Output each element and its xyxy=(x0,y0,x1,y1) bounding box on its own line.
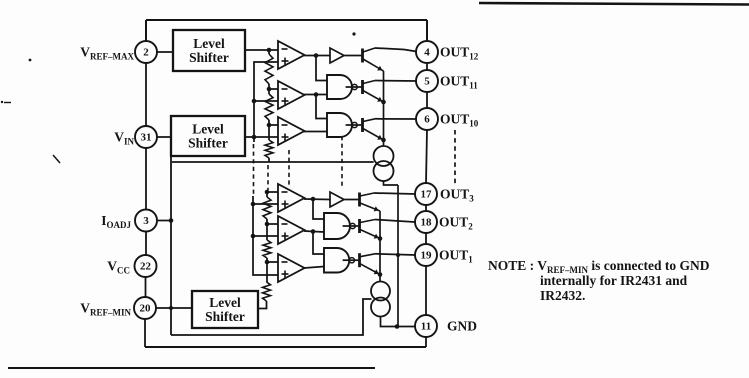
IC box top border xyxy=(146,19,427,21)
current mirror M1 xyxy=(374,146,394,166)
wire ladder seg xyxy=(266,258,268,282)
wire Q2 collector to pin5 xyxy=(375,80,417,83)
wire LS2 out xyxy=(245,136,278,138)
node Q3 emitter xyxy=(381,138,386,143)
wire bias rail bottom xyxy=(171,299,372,335)
label OUT10 xyxy=(440,112,479,129)
wire bias rail top xyxy=(172,161,374,163)
wire Q1 collector to pin4 xyxy=(375,48,417,52)
svg-text:VREF–MAX: VREF–MAX xyxy=(80,45,134,62)
svg-text:VIN: VIN xyxy=(114,130,134,147)
pin 17 xyxy=(415,183,437,205)
node pin20 cross xyxy=(169,306,173,310)
nand gate G2 xyxy=(327,113,357,137)
level shifter LS1 xyxy=(173,30,245,71)
buffer B xyxy=(330,192,344,207)
transistor Q6 xyxy=(360,253,381,274)
node B2 out xyxy=(311,229,316,234)
svg-text:OUT12: OUT12 xyxy=(440,45,479,62)
wire G1 to Q2 xyxy=(346,86,362,88)
pin 31 xyxy=(135,126,157,148)
svg-text:Level: Level xyxy=(193,36,225,51)
svg-text:19: 19 xyxy=(421,250,433,262)
svg-text:Level: Level xyxy=(209,295,241,310)
transistor Q4 xyxy=(360,193,381,212)
label VCC xyxy=(107,259,130,276)
top page rule xyxy=(479,3,749,5)
wire mirror M bottom xyxy=(384,181,399,185)
wire tap2 to comp2 xyxy=(269,88,278,90)
wire pin2 to LS1 xyxy=(157,51,174,53)
wire emitter bus upper xyxy=(383,71,385,146)
wire comp4 plus xyxy=(253,203,278,205)
wire buffer A to Q1 xyxy=(344,55,361,57)
svg-text:31: 31 xyxy=(141,132,152,144)
level shifter LS2 xyxy=(171,116,245,156)
level shifter LS3 xyxy=(192,291,258,328)
resistor R5 xyxy=(263,240,271,258)
svg-text:GND: GND xyxy=(447,319,477,334)
wire ladder seg xyxy=(268,84,270,94)
resistor R2 xyxy=(265,94,273,120)
label VIN xyxy=(114,130,134,147)
node tap6 xyxy=(265,260,270,265)
node A1 out xyxy=(314,53,319,58)
svg-text:Shifter: Shifter xyxy=(188,136,228,151)
wire tap3 to comp3 xyxy=(269,124,278,126)
wire pin3 xyxy=(157,220,172,222)
wire A2 drop to NAND2 xyxy=(316,95,327,119)
buffer A xyxy=(330,48,344,63)
comparator A3 xyxy=(278,117,305,145)
wire ladder seg xyxy=(266,219,268,240)
pin 4 xyxy=(416,41,438,63)
svg-text:Shifter: Shifter xyxy=(205,309,245,324)
bottom page rule xyxy=(8,367,375,369)
svg-text:VCC: VCC xyxy=(107,259,130,276)
node IOADJ junction xyxy=(169,218,174,223)
svg-text:OUT11: OUT11 xyxy=(440,74,478,91)
wire VIN bus lower xyxy=(253,196,278,275)
svg-text:18: 18 xyxy=(421,217,433,229)
node bus comp5 xyxy=(251,234,256,239)
wire comp B3 out xyxy=(304,267,324,269)
nand gate G1 xyxy=(327,75,357,99)
pin 18 xyxy=(415,211,437,233)
svg-text:Level: Level xyxy=(192,122,224,137)
label OUT1 xyxy=(439,248,473,265)
label OUT2 xyxy=(439,215,473,232)
current mirror M3 xyxy=(371,282,390,301)
node tap5 xyxy=(265,222,270,227)
svg-text:5: 5 xyxy=(424,76,430,88)
wire comp2 plus xyxy=(254,100,278,102)
svg-text:internally for IR2431 and: internally for IR2431 and xyxy=(540,273,688,288)
wire pin20 to LS3 xyxy=(156,307,193,309)
wire A1 drop to NAND1 xyxy=(316,56,327,81)
node bus comp4 xyxy=(251,202,256,207)
svg-text:OUT1: OUT1 xyxy=(439,248,473,265)
label VREF-MIN xyxy=(80,301,131,318)
wire comp5 plus xyxy=(253,235,278,237)
node tap4 xyxy=(265,190,270,195)
wire VIN bus upper xyxy=(254,62,278,142)
svg-text:11: 11 xyxy=(421,321,431,333)
wire G3 to Q5 xyxy=(343,225,359,227)
node Q5 emitter xyxy=(378,236,383,241)
wire Q5 collector to pin18 xyxy=(375,220,415,223)
label VREF-MAX xyxy=(80,45,134,62)
svg-text:3: 3 xyxy=(143,215,149,227)
svg-text:OUT2: OUT2 xyxy=(439,215,473,232)
current mirror M2 xyxy=(374,161,394,181)
wire VIN bus dashed xyxy=(253,144,255,196)
node tap3 xyxy=(267,123,272,128)
wire Q3 collector to pin6 xyxy=(375,118,417,120)
wire tap4 to comp4 xyxy=(267,191,278,193)
svg-text:17: 17 xyxy=(421,189,433,201)
pin 19 xyxy=(415,244,437,266)
pin 20 xyxy=(134,297,156,319)
node Q6 emitter xyxy=(378,272,383,277)
wire branch to bias rail xyxy=(171,138,243,153)
IC box bottom border xyxy=(145,346,426,348)
transistor Q3 xyxy=(363,118,384,140)
pin 5 xyxy=(416,70,438,92)
node pin19 cross xyxy=(396,253,400,257)
wire Q6 collector to pin19 xyxy=(375,254,416,255)
node bus comp2 xyxy=(252,99,257,104)
node A2 out xyxy=(314,92,319,97)
resistor R3 xyxy=(265,140,273,158)
resistor R4 xyxy=(263,197,271,219)
node ladder top xyxy=(267,48,272,53)
wire ladder seg xyxy=(266,192,268,197)
wire bias rail left xyxy=(170,153,172,335)
label IOADJ xyxy=(101,213,131,230)
node GND junction xyxy=(395,324,400,329)
wire G2 to Q3 xyxy=(346,124,362,126)
nand gate G4 xyxy=(324,248,354,273)
wire ladder seg xyxy=(268,120,270,140)
comparator A2 xyxy=(278,81,305,109)
nand gate G3 xyxy=(324,213,355,239)
transistor Q1 xyxy=(363,48,384,71)
IC box right border xyxy=(426,20,427,347)
wire ladder dashed xyxy=(267,165,269,190)
dashed nand column xyxy=(341,136,343,188)
comparator B1 xyxy=(278,184,305,212)
wire G4 to Q6 xyxy=(343,259,359,261)
wire pin31 to LS2 xyxy=(157,136,172,138)
wire emitter bus lower xyxy=(379,211,381,282)
wire Q4 collector to pin17 xyxy=(374,193,416,194)
wire comp B2 out xyxy=(304,231,324,232)
comparator B2 xyxy=(278,216,305,244)
wire comp A2 out xyxy=(304,94,327,96)
pin 22 xyxy=(135,255,157,277)
svg-text:6: 6 xyxy=(424,114,430,126)
svg-text:OUT10: OUT10 xyxy=(440,112,479,129)
transistor Q2 xyxy=(363,80,384,102)
comparator B3 xyxy=(278,254,305,282)
node bus LS2 xyxy=(252,135,257,140)
label GND xyxy=(447,319,477,334)
wire buffer B to Q4 xyxy=(344,199,358,201)
wire mirror to GND xyxy=(381,317,416,327)
svg-text:Shifter: Shifter xyxy=(189,50,229,65)
pin 11 xyxy=(415,315,437,337)
svg-text:IR2432.: IR2432. xyxy=(540,288,585,303)
wire LS1 out xyxy=(245,49,278,51)
dashed comp column xyxy=(288,150,290,187)
pin 3 xyxy=(135,210,157,232)
note text xyxy=(488,258,710,303)
node Q2 emitter xyxy=(381,100,386,105)
svg-text:VREF–MIN: VREF–MIN xyxy=(80,301,131,318)
wire mirror return xyxy=(397,185,399,327)
pin 6 xyxy=(416,108,438,130)
wire tap5 to comp5 xyxy=(267,223,278,225)
wire B1 drop to NAND3 xyxy=(313,199,324,219)
current mirror M4 xyxy=(371,298,390,317)
IC box left border xyxy=(145,20,146,347)
wire comp B1 out xyxy=(304,198,330,201)
wire ladder seg xyxy=(268,158,270,162)
svg-text:2: 2 xyxy=(143,47,149,59)
svg-text:OUT3: OUT3 xyxy=(440,187,474,204)
label OUT11 xyxy=(440,74,478,91)
node B1 out xyxy=(311,197,316,202)
label OUT3 xyxy=(440,187,474,204)
svg-text:IOADJ: IOADJ xyxy=(101,213,131,230)
pin 2 xyxy=(135,41,157,63)
wire tap6 to comp6 xyxy=(267,261,278,263)
wire B2 drop to NAND4 xyxy=(313,232,324,255)
svg-text:4: 4 xyxy=(424,47,430,59)
transistor Q5 xyxy=(360,219,381,239)
dashed out column xyxy=(454,130,456,186)
resistor R1 xyxy=(265,54,273,84)
svg-text:20: 20 xyxy=(140,303,152,315)
comparator A1 xyxy=(278,41,305,69)
wire ladder seg xyxy=(268,50,270,54)
label OUT12 xyxy=(440,45,479,62)
wire comp A1 out xyxy=(304,55,330,57)
wire comp A3 out xyxy=(304,131,327,133)
wire R6 to LS3 xyxy=(258,301,267,309)
svg-text:22: 22 xyxy=(140,261,152,273)
resistor R6 xyxy=(263,282,271,301)
node tap2 xyxy=(267,87,272,92)
